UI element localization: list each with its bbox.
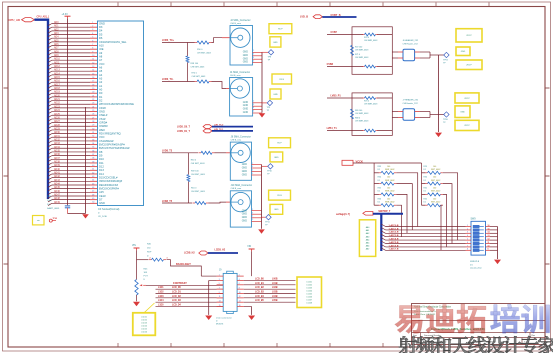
svg-text:5: 5 — [253, 111, 254, 113]
svg-text:CE1#: CE1# — [99, 194, 106, 198]
svg-text:LCD24: LCD24 — [141, 325, 147, 327]
svg-text:18: 18 — [92, 84, 94, 86]
svg-text:LCD_D0: LCD_D0 — [172, 287, 182, 289]
bus LVDS_D1 — [212, 130, 253, 132]
resistor R29 (pull-up) — [422, 172, 426, 174]
wire below R58 — [187, 63, 189, 82]
test point TP95 — [49, 218, 57, 222]
svg-text:A25: A25 — [99, 190, 104, 194]
connector J6 HEADER_2X2 label — [403, 39, 420, 45]
wire VCCK feeder — [353, 163, 422, 205]
R36 value text — [378, 198, 395, 203]
svg-text:100: 100 — [433, 188, 436, 190]
wire J9 pin16 to ground — [244, 307, 252, 315]
connector J7 HEADER_2X2 label — [403, 99, 420, 105]
svg-text:13: 13 — [219, 301, 221, 303]
resistor R60 (series 0 ohm) — [199, 152, 202, 154]
svg-text:1: 1 — [92, 22, 93, 24]
net stub box (J7 b) — [455, 120, 479, 130]
svg-text:D3: D3 — [99, 25, 103, 29]
svg-text:ROF: ROF — [147, 252, 152, 254]
svg-text:Rev: Rev — [532, 335, 536, 337]
svg-text:10: 10 — [488, 245, 490, 247]
svg-text:AD27: AD27 — [54, 120, 60, 123]
R69/R68 value text — [355, 110, 368, 123]
svg-text:INPACK#/DMARQ#: INPACK#/DMARQ# — [99, 179, 123, 183]
svg-text:L1D2: L1D2 — [158, 292, 164, 294]
svg-text:6: 6 — [92, 40, 93, 42]
svg-text:AA4: AA4 — [366, 238, 370, 241]
svg-text:BACKLIGHT: BACKLIGHT — [176, 263, 191, 266]
power symbol VIN (LCD) — [249, 248, 255, 250]
connector J4 SMA label — [230, 71, 250, 77]
wire header circuits ground rail — [438, 55, 440, 132]
IC U1 part text CF Socket(Normal) — [98, 208, 120, 218]
svg-text:4: 4 — [239, 279, 240, 281]
svg-text:SMT_0402: SMT_0402 — [431, 191, 440, 193]
svg-text:SWDIP-8: SWDIP-8 — [470, 261, 480, 263]
svg-text:LVD8_T5: LVD8_T5 — [162, 200, 173, 203]
connector J7 HEADER_2X2 body — [398, 109, 420, 121]
wire LVB4_T1 through loop — [352, 130, 392, 132]
svg-text:GND: GND — [243, 111, 249, 114]
svg-text:VCC: VCC — [99, 135, 105, 139]
connector J8 SMA label — [231, 135, 251, 141]
svg-text:1-AZC4-B: 1-AZC4-B — [389, 238, 399, 241]
svg-text:R35: R35 — [378, 188, 381, 190]
svg-text:CHI B_sma: CHI B_sma — [231, 140, 242, 142]
svg-text:3: 3 — [253, 54, 254, 56]
svg-text:GND: GND — [99, 21, 105, 25]
svg-text:J8 SMA_Connector: J8 SMA_Connector — [231, 135, 251, 138]
svg-text:5: 5 — [253, 60, 254, 62]
svg-text:4: 4 — [252, 216, 253, 218]
svg-text:49: 49 — [92, 198, 94, 200]
svg-text:AD2: AD2 — [54, 28, 59, 31]
svg-text:47: 47 — [92, 191, 94, 193]
svg-text:14: 14 — [92, 70, 94, 72]
svg-text:AA5: AA5 — [366, 242, 370, 245]
title block text — [413, 306, 535, 344]
svg-text:21: 21 — [92, 95, 94, 97]
svg-text:CHI SMT_0603: CHI SMT_0603 — [191, 163, 206, 165]
svg-text:2: 2 — [253, 50, 254, 52]
connector J6 HEADER_2X2 body — [398, 49, 420, 61]
svg-text:LVB4_T1: LVB4_T1 — [327, 127, 338, 130]
wire pot to ground — [136, 295, 138, 301]
svg-text:LVDS_TX+: LVDS_TX+ — [162, 39, 175, 42]
svg-text:16: 16 — [92, 77, 94, 79]
svg-text:AD15: AD15 — [54, 76, 60, 79]
resistor R32 (pull-up) — [422, 204, 426, 206]
svg-text:AA1: AA1 — [366, 229, 370, 232]
svg-text:/OE: /OE — [99, 47, 104, 51]
wire R60 to J8 pin 1 — [215, 152, 227, 154]
svg-text:6: 6 — [239, 283, 240, 285]
svg-text:1-AZC7-B: 1-AZC7-B — [389, 248, 399, 251]
svg-text:D4: D4 — [99, 29, 103, 33]
R32 value text — [424, 198, 441, 203]
resistor R35 (pull-up) — [374, 193, 379, 195]
svg-text:100: 100 — [387, 198, 390, 200]
svg-text:R70 0: R70 0 — [364, 101, 369, 103]
svg-text:AD3: AD3 — [54, 32, 59, 35]
svg-text:33: 33 — [92, 139, 94, 141]
svg-text:CVB8: CVB8 — [327, 63, 334, 66]
wire VIN rail down — [136, 250, 138, 279]
svg-text:20: 20 — [92, 92, 94, 94]
svg-text:AD5: AD5 — [54, 39, 59, 42]
ground (J8/J10) — [258, 229, 265, 233]
svg-text:CF_DOE: CF_DOE — [98, 216, 107, 218]
R70 value text — [364, 101, 377, 106]
svg-text:R69 100: R69 100 — [355, 110, 362, 112]
svg-text:3: 3 — [253, 104, 254, 106]
svg-text:11: 11 — [92, 59, 94, 61]
svg-text:1-AZC3-B: 1-AZC3-B — [389, 234, 399, 237]
svg-text:4: 4 — [253, 107, 254, 109]
wire LVB4_T1 — [327, 130, 352, 132]
off-page connector LVDS_D0 — [203, 125, 212, 129]
wire BACKLIGHT — [167, 260, 202, 276]
wire J7 pins to loop — [392, 112, 398, 118]
svg-text:R33: R33 — [378, 166, 381, 168]
svg-text:D1: D1 — [424, 180, 426, 182]
resistor R61 (series 0 ohm) — [193, 202, 196, 204]
svg-text:LVDS_D0_T: LVDS_D0_T — [177, 127, 190, 129]
bus CVBT (thick blue) — [322, 16, 356, 18]
svg-text:23: 23 — [92, 103, 94, 105]
power symbol VIN (backlight) — [134, 247, 140, 249]
wire R61 to J10 pin 1 — [209, 201, 227, 204]
svg-text:CHI SMR_0603: CHI SMR_0603 — [355, 113, 368, 115]
svg-text:D12: D12 — [99, 165, 104, 169]
svg-text:CHI SMT_0603: CHI SMT_0603 — [191, 174, 206, 176]
svg-text:AD22: AD22 — [54, 102, 60, 105]
svg-text:1: 1 — [219, 274, 220, 276]
LCD data wires with net labels — [156, 287, 224, 306]
svg-text:LCD_B0: LCD_B0 — [255, 278, 265, 280]
svg-text:JR2 P: JR2 P — [464, 98, 470, 100]
resistor R70 (top) — [362, 97, 364, 99]
svg-text:CF Socket(Normal): CF Socket(Normal) — [98, 208, 120, 211]
svg-text:39: 39 — [92, 161, 94, 163]
connector J9 LCD body — [223, 271, 237, 313]
svg-text:D9: D9 — [99, 154, 103, 158]
wire LVD8_T5 — [162, 202, 192, 204]
IC U1 CF Socket body — [98, 21, 144, 206]
wire CVB8 through loop — [352, 66, 392, 68]
svg-text:AD47: AD47 — [54, 193, 60, 196]
svg-text:A5: A5 — [99, 69, 103, 73]
svg-text:100: 100 — [433, 177, 436, 179]
svg-text:AD4: AD4 — [54, 36, 59, 39]
svg-text:SMR_0402: SMR_0402 — [385, 180, 394, 182]
svg-text:R29: R29 — [424, 166, 427, 168]
wire below R59 — [187, 182, 189, 203]
svg-text:1-AZC2-B: 1-AZC2-B — [389, 231, 399, 234]
resistor R34 (pull-up) — [374, 183, 379, 185]
ground (J2/J4) — [259, 113, 266, 117]
wire LVD8_T3 — [162, 152, 198, 154]
svg-text:CD2#: CD2# — [99, 106, 106, 110]
svg-text:9: 9 — [219, 292, 220, 294]
svg-text:D7: D7 — [99, 198, 103, 202]
wire LVDS_TX+ — [162, 42, 188, 44]
svg-text:D15/CD/CSEL#: D15/CD/CSEL# — [99, 176, 118, 180]
svg-text:GND: GND — [274, 209, 279, 211]
svg-text:CD1#/GPIO0/ATA_SEL: CD1#/GPIO0/ATA_SEL — [99, 40, 127, 44]
R59/R61 value text — [191, 170, 206, 192]
svg-text:2: 2 — [467, 228, 468, 230]
svg-text:A2: A2 — [99, 80, 103, 84]
svg-text:swcab.cztwn: swcab.cztwn — [470, 267, 483, 270]
svg-text:LCD_Connector: LCD_Connector — [216, 316, 232, 319]
resistor R71 (bottom) — [362, 66, 364, 68]
svg-text:GND: GND — [273, 42, 278, 44]
net stub box GND (J7) — [455, 106, 470, 118]
connector J10 SMA body — [230, 191, 251, 227]
wire CVB7 through loop — [352, 34, 392, 36]
connector J8 GND pins 2-5 — [242, 163, 254, 177]
wire J2 GND stubs to ground rail — [253, 52, 263, 113]
svg-text:CHI SMT_0603: CHI SMT_0603 — [197, 52, 212, 54]
svg-text:REG#/DMACK#: REG#/DMACK# — [99, 183, 118, 187]
R56 value text — [197, 49, 212, 54]
off-page connector CPU_AD — [9, 18, 35, 22]
svg-text:AA3: AA3 — [366, 235, 370, 238]
net stub box GND (J6) — [456, 47, 470, 56]
svg-text:35: 35 — [92, 147, 94, 149]
svg-text:AD40: AD40 — [54, 168, 60, 171]
svg-text:LCD_D1: LCD_D1 — [172, 292, 182, 294]
svg-text:24: 24 — [92, 106, 94, 108]
svg-text:100: 100 — [387, 188, 390, 190]
svg-text:40: 40 — [92, 165, 94, 167]
R58/R74 value text — [191, 63, 207, 78]
svg-text:LCD_B1: LCD_B1 — [255, 283, 265, 285]
svg-text:12: 12 — [92, 62, 94, 64]
svg-text:VS1#: VS1# — [99, 117, 106, 121]
svg-text:SMT_0402: SMT_0402 — [431, 169, 440, 171]
svg-text:AA2: AA2 — [366, 232, 370, 235]
wire LVDS_TX+/- vertical link — [187, 43, 189, 57]
svg-text:CPU_AD: CPU_AD — [9, 18, 21, 22]
wire CVB7 — [327, 34, 352, 36]
svg-text:50: 50 — [92, 202, 94, 204]
resistor R59 (termination 100) — [187, 175, 190, 182]
test point TP96 — [443, 112, 449, 124]
svg-text:CHI SMT_0603: CHI SMT_0603 — [191, 66, 206, 68]
off-page connector LVDS_D1 — [203, 129, 212, 133]
svg-text:16: 16 — [488, 225, 490, 227]
svg-text:25: 25 — [92, 110, 94, 112]
svg-text:43: 43 — [92, 176, 94, 178]
svg-text:LCD22: LCD22 — [141, 319, 147, 321]
wire ground rail (J2/J4) — [261, 52, 263, 112]
svg-text:2: 2 — [150, 258, 151, 260]
svg-text:AD19: AD19 — [54, 91, 60, 94]
svg-text:AD18: AD18 — [54, 87, 60, 90]
svg-text:D6: D6 — [99, 36, 103, 40]
svg-text:31: 31 — [92, 132, 94, 134]
svg-text:CHI B_sma: CHI B_sma — [230, 75, 241, 77]
off-page connector LCDB — [199, 251, 208, 255]
svg-text:34: 34 — [92, 143, 94, 145]
svg-text:R68 0: R68 0 — [355, 118, 360, 120]
power symbol +3.3V (VCC rail) — [62, 13, 71, 18]
svg-text:2: 2 — [92, 26, 93, 28]
svg-text:R30: R30 — [424, 177, 427, 179]
svg-text:L00B: L00B — [272, 278, 278, 280]
R60 value text — [191, 160, 206, 165]
svg-text:100: 100 — [387, 177, 390, 179]
svg-text:RDY/IREQ/INTRQ: RDY/IREQ/INTRQ — [99, 132, 121, 136]
svg-text:LCD02: LCD02 — [306, 284, 312, 286]
svg-text:R71 0: R71 0 — [355, 54, 360, 56]
wire J9 pin1 to BACKLIGHT — [201, 275, 216, 277]
net stub box GND (J4) — [270, 89, 281, 99]
svg-text:SMT_0402: SMT_0402 — [431, 180, 440, 182]
port VCCK — [342, 160, 363, 166]
wire SW9 common to ground — [497, 227, 499, 260]
svg-text:GND: GND — [99, 201, 105, 205]
resistor R56 (series 0 ohm) — [188, 42, 195, 44]
svg-text:5: 5 — [92, 37, 93, 39]
swflags wire fan to DIP switch — [381, 224, 465, 251]
svg-text:R59 100: R59 100 — [191, 170, 199, 172]
svg-text:29: 29 — [92, 125, 94, 127]
svg-text:AD45: AD45 — [54, 186, 60, 189]
svg-text:1-AZC5-B: 1-AZC5-B — [389, 241, 399, 244]
svg-text:7: 7 — [219, 287, 220, 289]
R31 value text — [424, 188, 441, 193]
svg-text:1-AZC6-B: 1-AZC6-B — [389, 244, 399, 247]
svg-text:SW9: SW9 — [471, 219, 477, 221]
svg-text:CHI SMR_0603: CHI SMR_0603 — [355, 49, 368, 51]
svg-text:D1: D1 — [424, 191, 426, 193]
svg-text:10: 10 — [239, 292, 241, 294]
svg-text:CHI SMT_0603: CHI SMT_0603 — [192, 76, 207, 78]
CF socket wire fan: 50 pin wires with net labels and pin numbers — [48, 21, 98, 206]
svg-text:AD16: AD16 — [54, 80, 60, 83]
net stub box (J2 top) — [269, 24, 292, 34]
net stub box GND (J8) — [270, 152, 283, 162]
svg-text:CHI Header_2X2: CHI Header_2X2 — [403, 103, 419, 105]
R34 value text — [378, 177, 395, 182]
svg-text:TP95: TP95 — [53, 218, 58, 220]
svg-text:POT: POT — [144, 276, 149, 278]
resistor R72 (left termination) — [351, 45, 354, 55]
resistor R69 (left termination) — [351, 109, 354, 119]
wire R36 to DIP row — [396, 205, 401, 237]
capacitor C36 value text — [47, 196, 60, 210]
wire VCC rail vertical — [67, 19, 69, 206]
svg-text:SMR_0402: SMR_0402 — [385, 191, 394, 193]
svg-text:LCDB_H2: LCDB_H2 — [215, 250, 226, 252]
svg-text:7: 7 — [92, 44, 93, 46]
svg-text:J6 HEADER_2X2: J6 HEADER_2X2 — [403, 39, 420, 42]
svg-text:AD48: AD48 — [54, 197, 60, 200]
svg-text:MOLEX: MOLEX — [216, 324, 224, 326]
svg-text:D14: D14 — [99, 172, 104, 176]
bus LVDS_D0 — [212, 126, 253, 128]
SW9 part text — [470, 261, 483, 270]
test point TP9 — [262, 100, 273, 112]
svg-text:45: 45 — [92, 183, 94, 185]
svg-text:R74 0: R74 0 — [192, 73, 198, 75]
svg-text:IOWR#: IOWR# — [99, 124, 108, 128]
svg-text:2: 2 — [253, 100, 254, 102]
svg-text:AD21: AD21 — [54, 98, 60, 101]
resistor R58 (termination 100) — [186, 56, 189, 63]
svg-text:L1D3: L1D3 — [158, 296, 164, 298]
net stub box GND (J10) — [270, 204, 283, 214]
svg-text:AD43: AD43 — [54, 179, 60, 182]
svg-text:SW7DIP_T: SW7DIP_T — [378, 210, 390, 213]
svg-text:J4 SMA_Connector: J4 SMA_Connector — [230, 71, 250, 74]
resistor R36 (pull-up) — [374, 204, 379, 206]
wire R74 to J4 pin 1 — [212, 82, 227, 89]
wire J6 to test point — [420, 52, 444, 58]
svg-text:A1: A1 — [99, 84, 103, 88]
svg-text:D13: D13 — [99, 168, 104, 172]
svg-text:44: 44 — [92, 180, 94, 182]
svg-text:AA0: AA0 — [366, 226, 370, 229]
svg-text:13: 13 — [92, 66, 94, 68]
svg-text:1-AZC0-B: 1-AZC0-B — [389, 224, 399, 227]
svg-text:5: 5 — [219, 283, 220, 285]
svg-text:CPU_AD[..]: CPU_AD[..] — [37, 16, 49, 19]
svg-text:9: 9 — [92, 51, 93, 53]
svg-text:AD42: AD42 — [54, 175, 60, 178]
R30 value text — [424, 177, 441, 182]
svg-text:AD10: AD10 — [54, 58, 60, 61]
svg-text:D1: D1 — [424, 169, 426, 171]
svg-text:D11: D11 — [99, 161, 104, 165]
connector J2 SMA body — [230, 26, 253, 66]
svg-text:4: 4 — [253, 57, 254, 59]
svg-text:LCD_D3: LCD_D3 — [172, 300, 182, 302]
svg-text:J10 SMA_Connector: J10 SMA_Connector — [231, 184, 253, 187]
connector J9 pins (left 1-15, right 2-16) — [217, 274, 244, 306]
svg-text:WE#: WE# — [99, 128, 105, 132]
wire R30 to DIP row — [443, 184, 452, 244]
svg-text:GND: GND — [274, 157, 279, 159]
svg-text:L1D5: L1D5 — [158, 305, 164, 307]
svg-text:CONTRAST: CONTRAST — [173, 282, 187, 285]
svg-text:AD38: AD38 — [54, 160, 60, 163]
svg-text:32: 32 — [92, 136, 94, 138]
svg-text:D2: D2 — [99, 98, 103, 102]
wire R32 to DIP row — [441, 205, 443, 250]
R35 value text — [378, 188, 395, 193]
svg-text:LCD07: LCD07 — [306, 299, 312, 301]
svg-text:AD11: AD11 — [54, 61, 60, 64]
switch SW9 pins — [466, 225, 498, 251]
svg-text:AD39: AD39 — [54, 164, 60, 167]
test point TP94 — [443, 52, 449, 64]
svg-text:R5 B: R5 B — [280, 79, 285, 81]
svg-text:L1D4: L1D4 — [158, 299, 164, 302]
svg-text:19: 19 — [92, 88, 94, 90]
svg-text:48: 48 — [92, 194, 94, 196]
svg-text:CVB7: CVB7 — [331, 31, 338, 34]
capacitor C36 — [65, 206, 70, 214]
wire loop rectangle (J7 network) — [352, 93, 392, 135]
svg-text:AA6: AA6 — [366, 245, 370, 248]
resistor R76 (top) — [362, 34, 364, 36]
